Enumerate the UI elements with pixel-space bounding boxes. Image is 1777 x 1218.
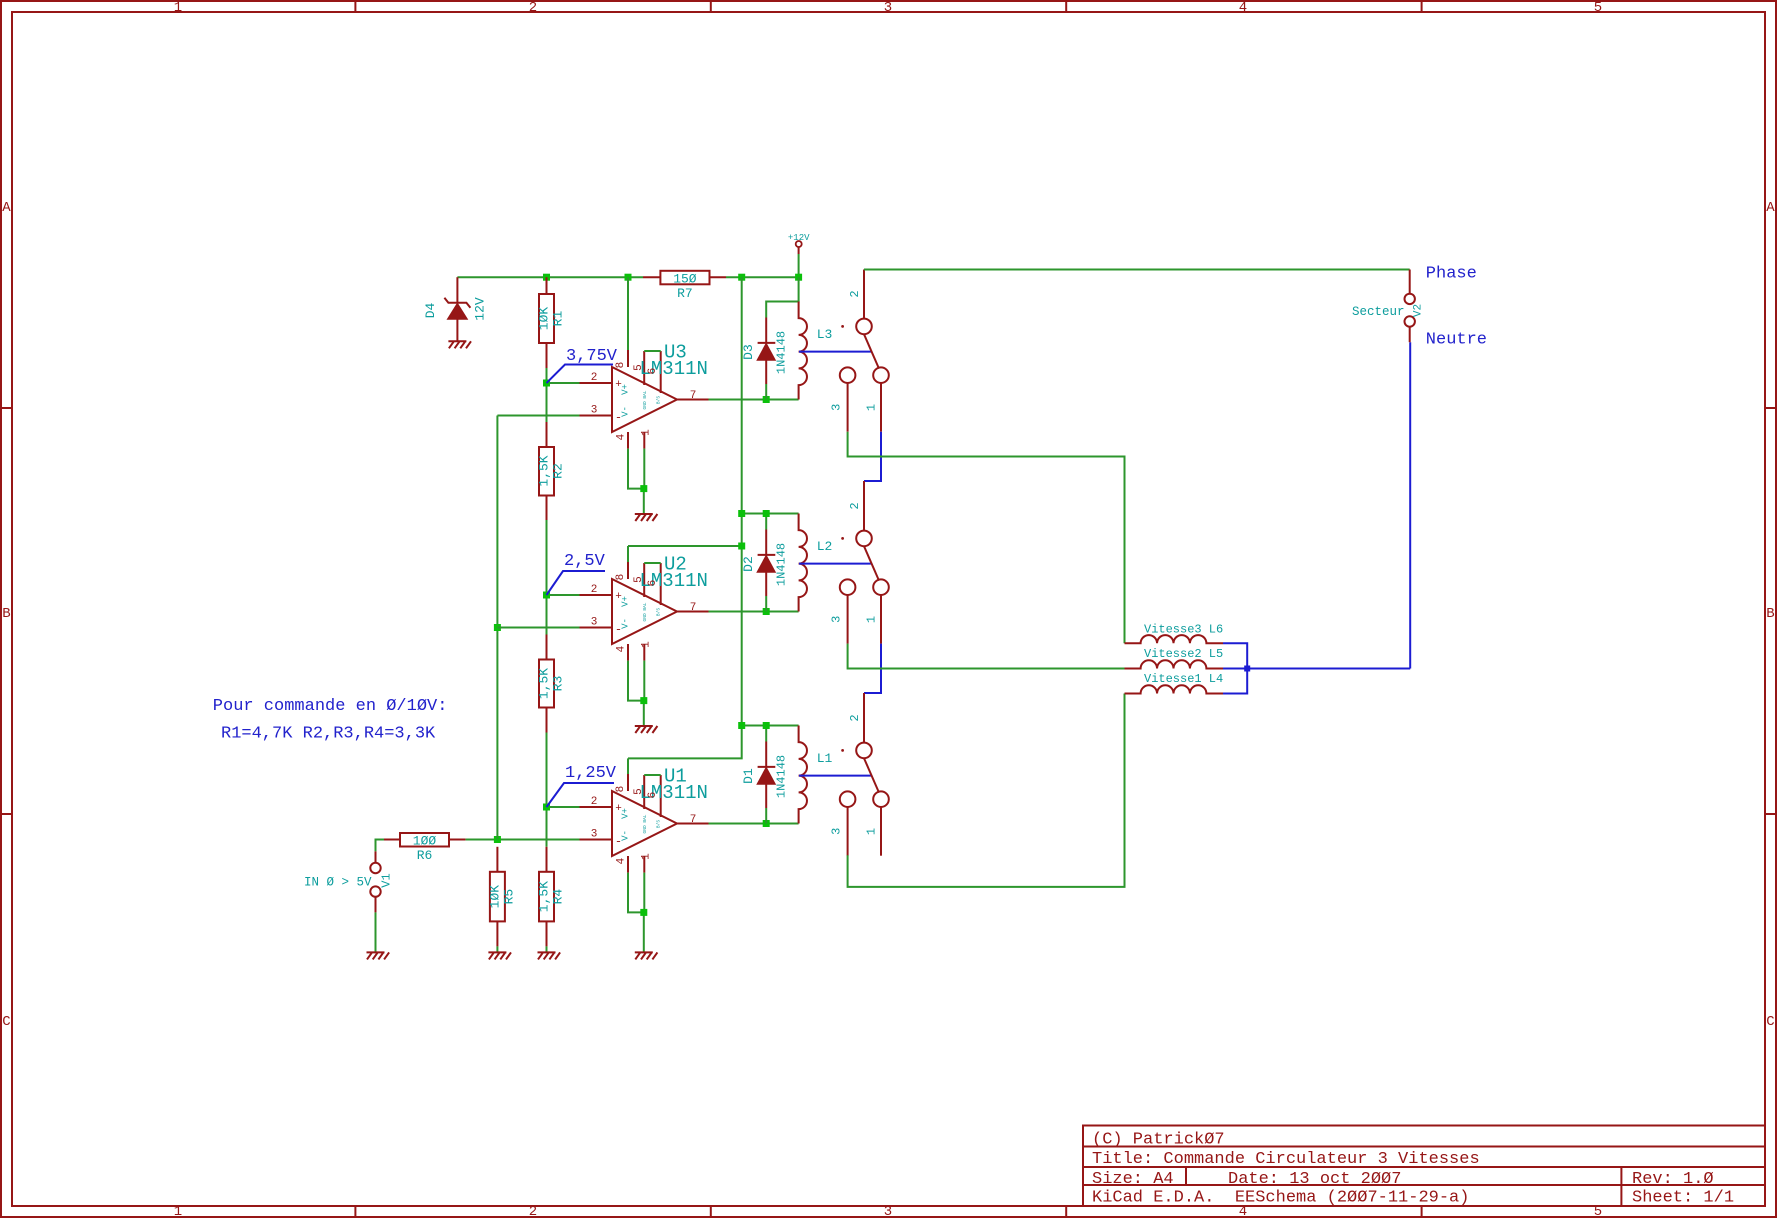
label L1: [817, 751, 833, 766]
svg-text:B/S: B/S: [656, 608, 662, 616]
svg-text:V2: V2: [1413, 304, 1425, 317]
svg-text:8: 8: [615, 786, 627, 793]
node junction bus-loop1: [738, 722, 745, 729]
svg-text:8: 8: [615, 362, 627, 369]
svg-text:4: 4: [616, 857, 628, 864]
svg-text:5: 5: [633, 576, 645, 583]
svg-text:Size: A4: Size: A4: [1092, 1170, 1174, 1189]
svg-text:V+: V+: [621, 596, 631, 607]
node junction U1 pin1-4: [640, 909, 647, 916]
node junction U2 pin1-4: [640, 697, 647, 704]
resistor R6 100: [384, 833, 466, 863]
svg-text:3: 3: [591, 617, 598, 629]
resistor R7 150: [643, 271, 726, 301]
node junction output-D3: [763, 396, 770, 403]
svg-text:8: 8: [615, 574, 627, 581]
svg-text:7: 7: [690, 602, 697, 614]
svg-text:1: 1: [641, 429, 653, 436]
resistor R1 10K: [537, 277, 566, 368]
svg-text:+12V: +12V: [788, 233, 810, 243]
svg-text:3: 3: [884, 0, 892, 16]
wire R5 to ground: [496, 946, 498, 952]
label Phase: [1426, 265, 1477, 284]
wire V1 to ground: [375, 912, 377, 952]
wire R3 to node 1,25V: [546, 733, 548, 847]
wire node 3,75V to pin2 of U3: [547, 382, 580, 384]
svg-text:V+: V+: [621, 384, 631, 395]
svg-text:7: 7: [690, 814, 697, 826]
svg-text:2: 2: [591, 584, 598, 596]
node junction rail-bus: [738, 274, 745, 281]
label 2,5V: [547, 552, 606, 595]
svg-text:1,5K: 1,5K: [537, 668, 552, 699]
wire U2 pins 4,1 to ground: [628, 661, 644, 726]
diode D3 1N4148: [741, 318, 789, 385]
svg-text:1,5K: 1,5K: [537, 881, 552, 912]
svg-text:Sheet: 1/1: Sheet: 1/1: [1632, 1189, 1734, 1208]
ground under R5: [488, 952, 511, 959]
svg-text:L3: L3: [817, 327, 833, 342]
node junction output-D1: [763, 820, 770, 827]
ground under D4: [448, 341, 471, 348]
note R1=4,7K R2,R3,R4=3,3K: [221, 725, 436, 744]
svg-text:Neutre: Neutre: [1426, 331, 1487, 350]
connector V1 IN: [370, 863, 393, 913]
wire relay coil top loop D3: [766, 277, 798, 317]
label 3,75V: [547, 347, 618, 383]
wire pin3 of U3: [497, 415, 579, 417]
svg-text:1ØØ: 1ØØ: [413, 834, 437, 849]
op-amp U3 LM311N: [580, 277, 709, 448]
svg-text:R1=4,7K R2,R3,R4=3,3K: R1=4,7K R2,R3,R4=3,3K: [221, 725, 436, 744]
wire coil tap to contact arm L1: [799, 775, 871, 777]
wire Phase rail: [864, 269, 1410, 271]
wire V- input bus: [496, 416, 498, 840]
svg-text:1,25V: 1,25V: [565, 764, 617, 783]
wire U1 pins 4,1 to ground: [628, 873, 644, 953]
svg-text:A: A: [1766, 200, 1775, 216]
wire relay L1 pin2 lead: [863, 693, 865, 742]
node junction 2,5V: [543, 592, 550, 599]
svg-text:Vitesse2 L5: Vitesse2 L5: [1144, 647, 1223, 661]
svg-text:1: 1: [174, 1204, 182, 1218]
op-amp U1 LM311N: [580, 758, 709, 872]
svg-text:1: 1: [865, 828, 879, 835]
title block text KiCad/Sheet: [1092, 1189, 1734, 1208]
wire D1 to output node: [765, 808, 767, 824]
svg-text:1: 1: [865, 616, 879, 623]
wire relay L1 contact3 to Vitesse1: [848, 694, 1125, 887]
title block text (C) Patrick07: [1092, 1131, 1225, 1150]
svg-text:C: C: [1766, 1014, 1774, 1030]
svg-text:3: 3: [830, 828, 844, 835]
label IN 0 > 5V: [304, 876, 372, 890]
node junction output-D2: [763, 608, 770, 615]
svg-text:R7: R7: [677, 286, 693, 301]
wire V1 to R6: [376, 840, 385, 863]
relay coil L1: [799, 726, 807, 824]
relay contacts L2: [830, 482, 889, 644]
wire U2 pin8 feed: [628, 545, 742, 547]
svg-text:1: 1: [174, 0, 182, 16]
svg-text:A: A: [2, 200, 11, 216]
svg-text:Phase: Phase: [1426, 265, 1477, 284]
wire pin3 of U2: [497, 627, 579, 629]
svg-text:4: 4: [1239, 0, 1247, 16]
svg-text:L1: L1: [817, 751, 833, 766]
svg-text:V-: V-: [621, 406, 631, 417]
svg-text:3: 3: [830, 616, 844, 623]
svg-text:B/S: B/S: [656, 820, 662, 828]
svg-text:12V: 12V: [473, 297, 488, 321]
wire Neutre riser (blue): [1409, 342, 1411, 668]
svg-text:7: 7: [690, 390, 697, 402]
svg-text:3: 3: [830, 404, 844, 411]
svg-text:3: 3: [591, 829, 598, 841]
svg-text:D2: D2: [741, 556, 756, 572]
svg-text:4: 4: [616, 645, 628, 652]
node junction bus-loop2: [738, 510, 745, 517]
svg-text:1: 1: [641, 641, 653, 648]
svg-text:V-: V-: [621, 830, 631, 841]
svg-text:R6: R6: [417, 848, 433, 863]
svg-text:B/S: B/S: [656, 396, 662, 404]
svg-text:B: B: [2, 606, 10, 622]
relay contacts L1: [830, 694, 889, 856]
wire U3 pins 4,1 to ground: [628, 449, 644, 514]
label L2: [817, 539, 833, 554]
svg-text:V1: V1: [380, 873, 394, 887]
title block text Size/Date/Rev: [1092, 1170, 1714, 1189]
svg-text:KiCad E.D.A. EESchema (2ØØ7-1: KiCad E.D.A. EESchema (2ØØ7-11-29-a): [1092, 1189, 1469, 1208]
ground under U2: [635, 726, 658, 733]
inductor L4 Vitesse1: [1125, 672, 1224, 694]
svg-text:GND BAL: GND BAL: [642, 390, 648, 409]
relay coil L3: [799, 302, 807, 400]
svg-text:2,5V: 2,5V: [564, 552, 606, 571]
svg-text:D1: D1: [741, 768, 756, 784]
wire output of U2: [709, 611, 799, 613]
node junction bus-U2pin8: [738, 543, 745, 550]
wire relay L3 contact3 to Vitesse3: [848, 432, 1125, 644]
connector V2 Secteur: [1352, 270, 1425, 343]
svg-text:2: 2: [848, 290, 862, 297]
svg-text:2: 2: [529, 1204, 537, 1218]
svg-text:IN Ø > 5V: IN Ø > 5V: [304, 876, 372, 890]
svg-text:Rev: 1.Ø: Rev: 1.Ø: [1632, 1170, 1714, 1189]
svg-text:D3: D3: [741, 344, 756, 360]
node junction loop-D2: [763, 510, 770, 517]
title block dividers: [1083, 1147, 1765, 1207]
svg-text:R2: R2: [551, 463, 566, 479]
wire coil tap to contact arm L2: [799, 563, 871, 565]
svg-text:6: 6: [647, 580, 659, 587]
wire node 1,25V to pin2 of U1: [547, 806, 580, 808]
svg-text:Pour commande en Ø/1ØV:: Pour commande en Ø/1ØV:: [213, 697, 448, 716]
svg-text:1N4148: 1N4148: [775, 755, 789, 798]
svg-text:Title: Commande Circulateur 3: Title: Commande Circulateur 3 Vitesses: [1092, 1150, 1480, 1169]
svg-text:R5: R5: [501, 889, 516, 905]
svg-text:GND BAL: GND BAL: [642, 602, 648, 621]
wire node 2,5V to pin2 of U2: [547, 594, 580, 596]
wire relay L2 pin1 to relay L1 pin2 (blue): [864, 644, 881, 693]
wire relay coil top loop D1: [742, 726, 799, 742]
wire R1 to node 3,75V: [546, 368, 548, 422]
resistor R4 1,5K: [537, 847, 566, 947]
op-amp U2 LM311N: [580, 546, 709, 661]
svg-text:R1: R1: [551, 311, 566, 327]
svg-text:GND BAL: GND BAL: [642, 814, 648, 833]
node junction 1,25V: [543, 804, 550, 811]
wire D3 to output node: [765, 384, 767, 400]
svg-text:1: 1: [641, 853, 653, 860]
ground under U1: [635, 952, 658, 959]
node junction rail +12V drop: [795, 274, 802, 281]
svg-text:3,75V: 3,75V: [566, 347, 618, 366]
node junction bus-U2pin3: [494, 624, 501, 631]
svg-text:R3: R3: [551, 676, 566, 692]
title block text Title: [1092, 1150, 1480, 1169]
wire D2 to output node: [765, 596, 767, 612]
wire R2 to node 2,5V: [546, 520, 548, 635]
wire coil commons (blue): [1223, 643, 1410, 693]
zener diode D4 12V: [423, 277, 488, 341]
label L3: [817, 327, 833, 342]
svg-text:5: 5: [1594, 0, 1602, 16]
svg-text:2: 2: [529, 0, 537, 16]
svg-text:Vitesse3 L6: Vitesse3 L6: [1144, 623, 1223, 637]
svg-text:2: 2: [848, 714, 862, 721]
svg-text:4: 4: [616, 433, 628, 440]
svg-text:B: B: [1766, 606, 1774, 622]
inductor L5 Vitesse2: [1125, 647, 1224, 669]
resistor R3 1,5K: [537, 635, 566, 733]
wire R4 to ground: [546, 946, 548, 952]
label Neutre: [1426, 331, 1487, 350]
note Pour commande en 0/10V: [213, 697, 448, 716]
svg-text:Vitesse1 L4: Vitesse1 L4: [1144, 672, 1223, 686]
wire +12V vertical bus: [628, 277, 742, 758]
wire R6 output to U1 pin3: [466, 839, 580, 841]
node junction input bus: [494, 836, 501, 843]
svg-text:Date: 13 oct 2ØØ7: Date: 13 oct 2ØØ7: [1228, 1170, 1401, 1189]
svg-text:1ØK: 1ØK: [487, 885, 502, 909]
svg-text:5: 5: [633, 364, 645, 371]
svg-text:(C) PatrickØ7: (C) PatrickØ7: [1092, 1131, 1225, 1150]
svg-text:1ØK: 1ØK: [537, 307, 552, 331]
title block outline: [1083, 1126, 1765, 1207]
svg-text:Secteur: Secteur: [1352, 305, 1405, 319]
svg-text:1,5K: 1,5K: [537, 455, 552, 486]
svg-text:5: 5: [633, 788, 645, 795]
svg-text:L2: L2: [817, 539, 833, 554]
svg-text:1: 1: [865, 404, 879, 411]
ground under U3: [635, 514, 658, 521]
resistor R5 10K: [487, 847, 516, 947]
node junction loop-D1: [763, 722, 770, 729]
diode D1 1N4148: [741, 742, 789, 809]
ground under V1: [367, 952, 390, 959]
node junction rail-U3pin8: [625, 274, 632, 281]
label 1,25V: [547, 764, 617, 807]
wire output of U3: [709, 399, 799, 401]
resistor R2 1,5K: [537, 422, 566, 520]
svg-text:R4: R4: [551, 889, 566, 905]
diode D2 1N4148: [741, 530, 789, 597]
svg-text:3: 3: [884, 1204, 892, 1218]
svg-text:V-: V-: [621, 618, 631, 629]
wire coil tap to contact arm L3: [799, 351, 871, 353]
wire relay coil top loop D2: [742, 514, 799, 530]
svg-text:1N4148: 1N4148: [775, 331, 789, 374]
svg-text:1N4148: 1N4148: [775, 543, 789, 586]
node junction rail-R1: [543, 274, 550, 281]
node junction 3,75V: [543, 380, 550, 387]
node junction coil common: [1244, 666, 1250, 672]
power symbol +12V: [788, 233, 810, 277]
ground under R4: [538, 952, 561, 959]
svg-text:2: 2: [591, 372, 598, 384]
relay contacts L3: [830, 270, 889, 432]
wire output of U1: [709, 823, 799, 825]
wire +12V top rail left: [457, 276, 643, 278]
node junction U3 pin1-4: [640, 485, 647, 492]
svg-text:V+: V+: [621, 808, 631, 819]
wire relay L2 contact3 to Vitesse2: [848, 644, 1125, 669]
wire relay L2 pin2 lead: [863, 481, 865, 531]
inductor L6 Vitesse3: [1125, 623, 1224, 644]
relay coil L2: [799, 514, 807, 612]
svg-text:D4: D4: [423, 303, 438, 319]
svg-text:6: 6: [647, 368, 659, 375]
svg-text:2: 2: [591, 796, 598, 808]
svg-text:15Ø: 15Ø: [673, 272, 697, 287]
svg-text:2: 2: [848, 502, 862, 509]
svg-text:3: 3: [591, 405, 598, 417]
wire top rail right of R7: [726, 276, 799, 278]
svg-text:C: C: [2, 1014, 10, 1030]
svg-text:6: 6: [647, 792, 659, 799]
wire relay L3 pin1 to relay L2 pin2 (blue): [864, 432, 881, 481]
